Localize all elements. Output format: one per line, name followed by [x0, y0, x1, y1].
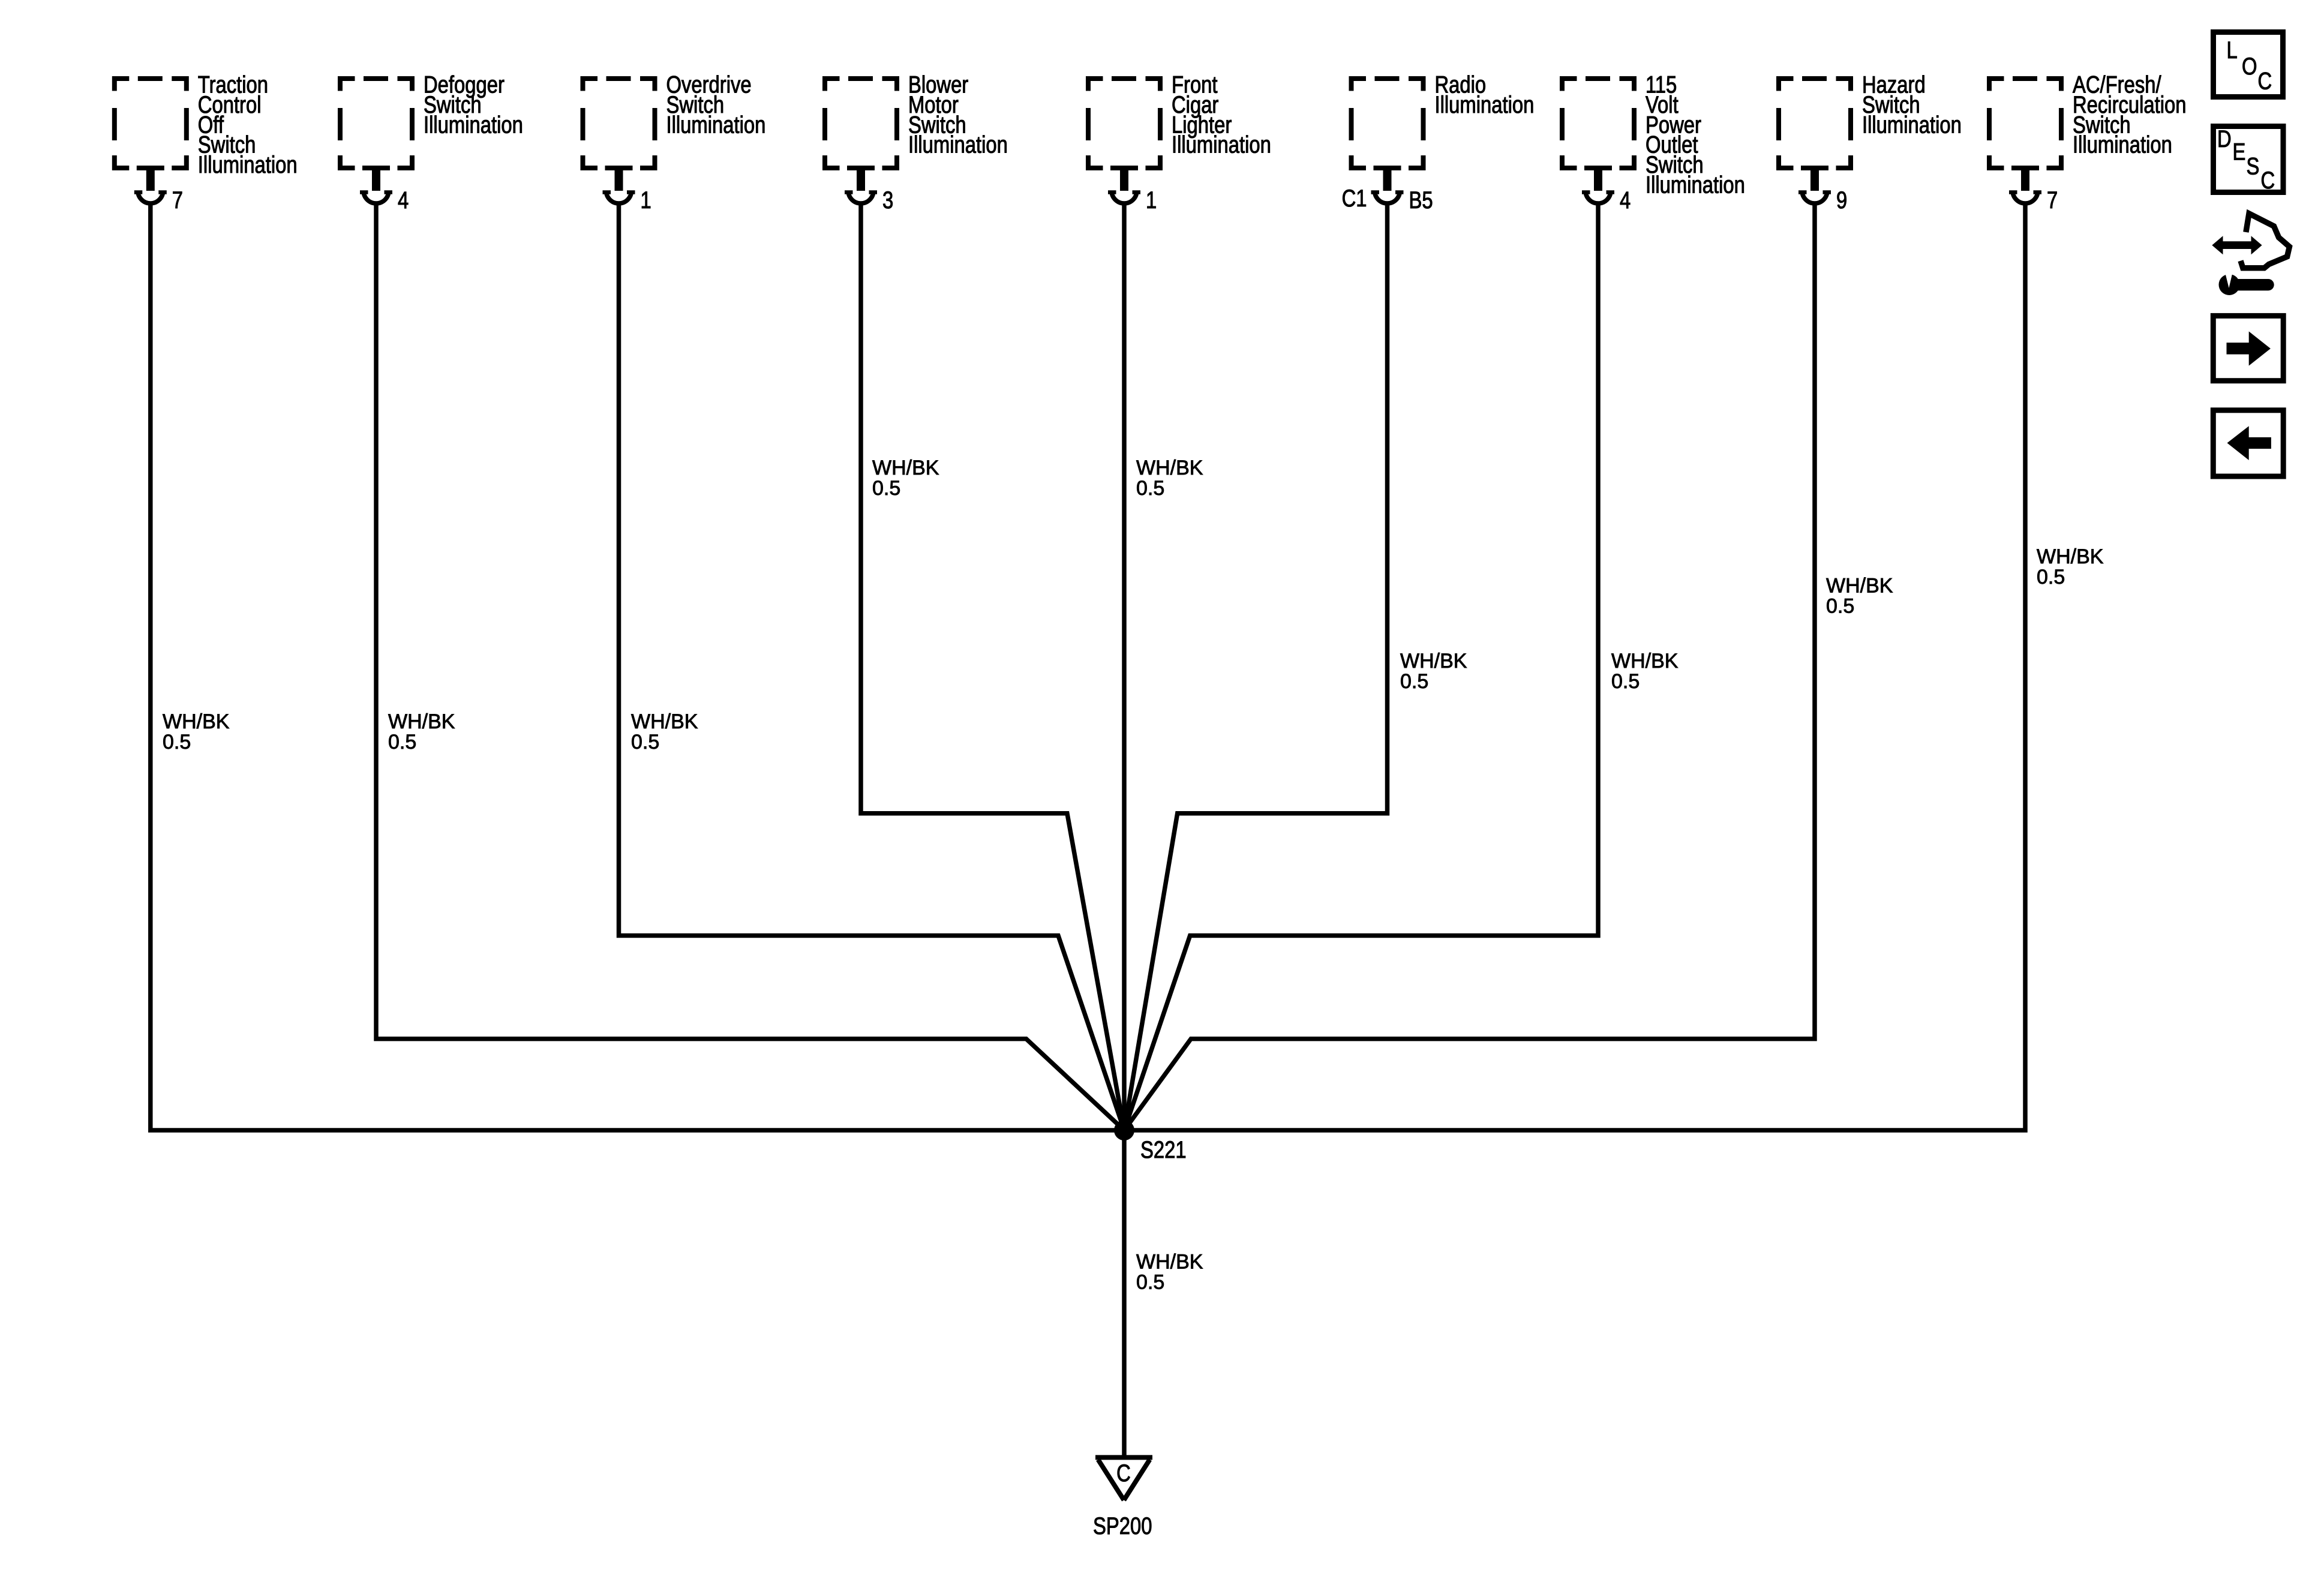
- svg-text:Illumination: Illumination: [1646, 171, 1745, 198]
- svg-text:WH/BK: WH/BK: [1136, 1251, 1203, 1274]
- SP200 label: [1093, 1512, 1152, 1539]
- pin C1 label: [1342, 185, 1367, 212]
- splice S221: [1114, 1120, 1134, 1140]
- svg-text:WH/BK: WH/BK: [1826, 575, 1893, 598]
- svg-text:4: 4: [398, 187, 409, 214]
- svg-text:C1: C1: [1342, 185, 1367, 212]
- Hazard Switch Illumination connector: [1776, 76, 1853, 203]
- svg-text:0.5: 0.5: [2037, 566, 2065, 589]
- svg-text:Illumination: Illumination: [908, 131, 1008, 158]
- svg-text:0.5: 0.5: [1826, 595, 1854, 618]
- Front Cigar Lighter Illumination connector: [1086, 76, 1163, 203]
- svg-text:O: O: [2242, 53, 2257, 80]
- label: Blower Motor Switch Illumination: [908, 71, 1008, 158]
- label: Overdrive Switch Illumination: [666, 71, 766, 138]
- svg-text:WH/BK: WH/BK: [163, 710, 230, 733]
- wire W5: Front Cigar pin 1 to S221: [1122, 203, 1127, 1130]
- svg-text:S: S: [2247, 152, 2260, 179]
- wire W1: Traction pin 7 to S221: [151, 203, 1124, 1130]
- wire label WH/BK 0.5 (W10): [1136, 1251, 1203, 1294]
- wire W8: Hazard pin 9 to S221: [1124, 203, 1815, 1130]
- wire label WH/BK 0.5 (W2): [388, 710, 455, 754]
- svg-text:WH/BK: WH/BK: [1136, 457, 1203, 479]
- wire label WH/BK 0.5 (W6): [1400, 650, 1467, 693]
- wire W7: 115V Outlet pin 4 to S221: [1124, 203, 1598, 1130]
- wire W2: Defogger pin 4 to S221: [376, 203, 1124, 1130]
- svg-text:L: L: [2227, 37, 2238, 64]
- pin 3 label: [882, 187, 893, 214]
- svg-text:WH/BK: WH/BK: [388, 710, 455, 733]
- pin 7 label: [2047, 187, 2058, 214]
- wire label WH/BK 0.5 (W3): [631, 710, 698, 754]
- svg-text:E: E: [2233, 138, 2246, 165]
- wire label WH/BK 0.5 (W5): [1136, 457, 1203, 500]
- svg-text:0.5: 0.5: [1136, 477, 1164, 500]
- svg-text:0.5: 0.5: [1136, 1271, 1164, 1294]
- pin 4 label: [398, 187, 409, 214]
- svg-text:0.5: 0.5: [1400, 670, 1428, 693]
- S221 label: [1140, 1136, 1187, 1163]
- svg-text:1: 1: [641, 187, 651, 214]
- 115 Volt Power Outlet Switch Illumination connector: [1560, 76, 1637, 203]
- wire W6: Radio pin B5 to S221: [1124, 203, 1388, 1130]
- AC/Fresh/Recirculation Switch Illumination connector: [1987, 76, 2064, 203]
- pin 1 label: [1146, 187, 1157, 214]
- Blower Motor Switch Illumination connector: [822, 76, 899, 203]
- label: Front Cigar Lighter Illumination: [1172, 71, 1271, 158]
- svg-text:WH/BK: WH/BK: [872, 457, 939, 479]
- svg-text:7: 7: [172, 187, 183, 214]
- DESC button: [2214, 125, 2284, 194]
- svg-text:9: 9: [1836, 187, 1847, 214]
- pin B5 label: [1409, 187, 1433, 214]
- svg-text:WH/BK: WH/BK: [1611, 650, 1679, 673]
- pin 9 label: [1836, 187, 1847, 214]
- wire label WH/BK 0.5 (W1): [163, 710, 230, 754]
- wire label WH/BK 0.5 (W8): [1826, 575, 1893, 618]
- svg-text:0.5: 0.5: [163, 731, 191, 754]
- svg-text:Illumination: Illumination: [1172, 131, 1271, 158]
- Defogger Switch Illumination connector: [338, 76, 415, 203]
- svg-text:Illumination: Illumination: [198, 151, 298, 178]
- pin 4 label: [1620, 187, 1631, 214]
- label: Radio Illumination: [1435, 71, 1535, 118]
- svg-text:4: 4: [1620, 187, 1631, 214]
- next arrow button: [2213, 316, 2283, 380]
- svg-text:7: 7: [2047, 187, 2058, 214]
- svg-text:WH/BK: WH/BK: [631, 710, 698, 733]
- harness repair icon (arrow + wrench): [2212, 214, 2289, 295]
- svg-text:1: 1: [1146, 187, 1157, 214]
- svg-text:0.5: 0.5: [872, 477, 900, 500]
- back arrow button: [2213, 410, 2283, 476]
- label: AC/Fresh/ Recirculation Switch Illumination: [2073, 71, 2187, 158]
- svg-text:Illumination: Illumination: [424, 111, 523, 138]
- svg-text:0.5: 0.5: [388, 731, 416, 754]
- svg-text:Illumination: Illumination: [1435, 91, 1535, 118]
- Overdrive Switch Illumination connector: [581, 76, 657, 203]
- wire label WH/BK 0.5 (W7): [1611, 650, 1679, 693]
- wire label WH/BK 0.5 (W4): [872, 457, 939, 500]
- Radio Illumination connector: [1349, 76, 1426, 203]
- ground splice SP200 symbol (triangle C): [1095, 1457, 1152, 1500]
- svg-text:S221: S221: [1140, 1136, 1187, 1163]
- svg-text:C: C: [2258, 67, 2272, 94]
- pin 7 label: [172, 187, 183, 214]
- svg-text:WH/BK: WH/BK: [2037, 545, 2104, 568]
- svg-text:WH/BK: WH/BK: [1400, 650, 1467, 673]
- svg-text:Illumination: Illumination: [666, 111, 766, 138]
- svg-text:D: D: [2217, 125, 2232, 152]
- svg-text:C: C: [2261, 167, 2275, 194]
- wire W9: AC/Fresh pin 7 to S221: [1124, 203, 2025, 1130]
- svg-text:Illumination: Illumination: [1862, 111, 1962, 138]
- svg-text:Illumination: Illumination: [2073, 131, 2172, 158]
- svg-text:SP200: SP200: [1093, 1512, 1152, 1539]
- wire W4: Blower pin 3 to S221: [861, 203, 1124, 1130]
- svg-text:0.5: 0.5: [1611, 670, 1640, 693]
- label: Defogger Switch Illumination: [424, 71, 523, 138]
- svg-text:0.5: 0.5: [631, 731, 659, 754]
- LOC button: [2214, 32, 2283, 97]
- wire W10: S221 to SP200: [1122, 1130, 1127, 1457]
- Traction Control Off Switch Illumination connector: [112, 76, 189, 203]
- label: Traction Control Off Switch Illumination: [198, 71, 298, 178]
- svg-text:B5: B5: [1409, 187, 1433, 214]
- label: 115 Volt Power Outlet Switch Illumination: [1646, 71, 1745, 198]
- label: Hazard Switch Illumination: [1862, 71, 1962, 138]
- wire W3: Overdrive pin 1 to S221: [619, 203, 1125, 1130]
- svg-text:3: 3: [882, 187, 893, 214]
- pin 1 label: [641, 187, 651, 214]
- svg-text:C: C: [1116, 1460, 1131, 1487]
- wire label WH/BK 0.5 (W9): [2037, 545, 2104, 589]
